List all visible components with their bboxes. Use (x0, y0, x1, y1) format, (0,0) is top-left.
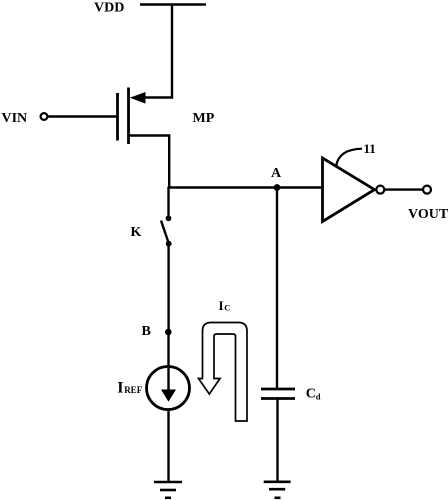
terminal VOUT (423, 186, 431, 194)
wire node A horizontal (168, 186, 322, 188)
buffer output bubble (376, 186, 384, 194)
svg-text:REF: REF (124, 385, 143, 395)
svg-text:I: I (117, 380, 123, 397)
buffer U11 triangle (323, 158, 375, 222)
switch K top dot (166, 215, 172, 221)
current source IREF circle (147, 367, 190, 410)
ground (left) (154, 481, 182, 484)
switch K blade (161, 221, 169, 244)
current source IREF arrow shaft (167, 368, 169, 391)
wire capacitor to ground (276, 399, 278, 482)
current source IREF arrowhead (161, 390, 176, 402)
svg-text:C: C (224, 303, 230, 313)
svg-text:I: I (219, 298, 224, 313)
wire VIN to gate (47, 115, 116, 117)
svg-text:C: C (306, 387, 316, 402)
wire node A to capacitor (276, 188, 278, 389)
wire buffer to VOUT terminal (385, 188, 424, 190)
transistor MP channel bar (127, 88, 130, 145)
wire switch to node B (167, 244, 169, 332)
svg-text:d: d (316, 392, 321, 402)
VDD rail (140, 3, 206, 5)
svg-text:A: A (271, 166, 282, 181)
svg-text:K: K (131, 225, 142, 240)
wire junction to switch (167, 187, 169, 217)
svg-text:VDD: VDD (94, 1, 124, 16)
svg-text:MP: MP (193, 111, 215, 126)
node A dot (274, 184, 281, 191)
capacitor Cd bottom plate (261, 397, 295, 400)
transistor MP source arrow (130, 92, 146, 104)
capacitor Cd top plate (261, 388, 295, 391)
svg-text:VIN: VIN (2, 111, 28, 126)
ground (right) (264, 480, 291, 483)
wire current source to ground (167, 410, 169, 483)
current loop arrow IC (199, 323, 248, 422)
node B dot (165, 329, 172, 336)
switch K bottom dot (166, 241, 172, 247)
wire VDD rail to MP source (140, 5, 172, 98)
wire node B to current source (167, 332, 169, 367)
leader line for 11 (336, 149, 362, 167)
transistor MP gate bar (116, 93, 119, 141)
svg-text:VOUT: VOUT (408, 207, 448, 222)
transistor MP drain wire (130, 136, 170, 187)
svg-text:B: B (142, 324, 151, 339)
terminal VIN (41, 113, 48, 120)
svg-text:11: 11 (364, 141, 376, 156)
